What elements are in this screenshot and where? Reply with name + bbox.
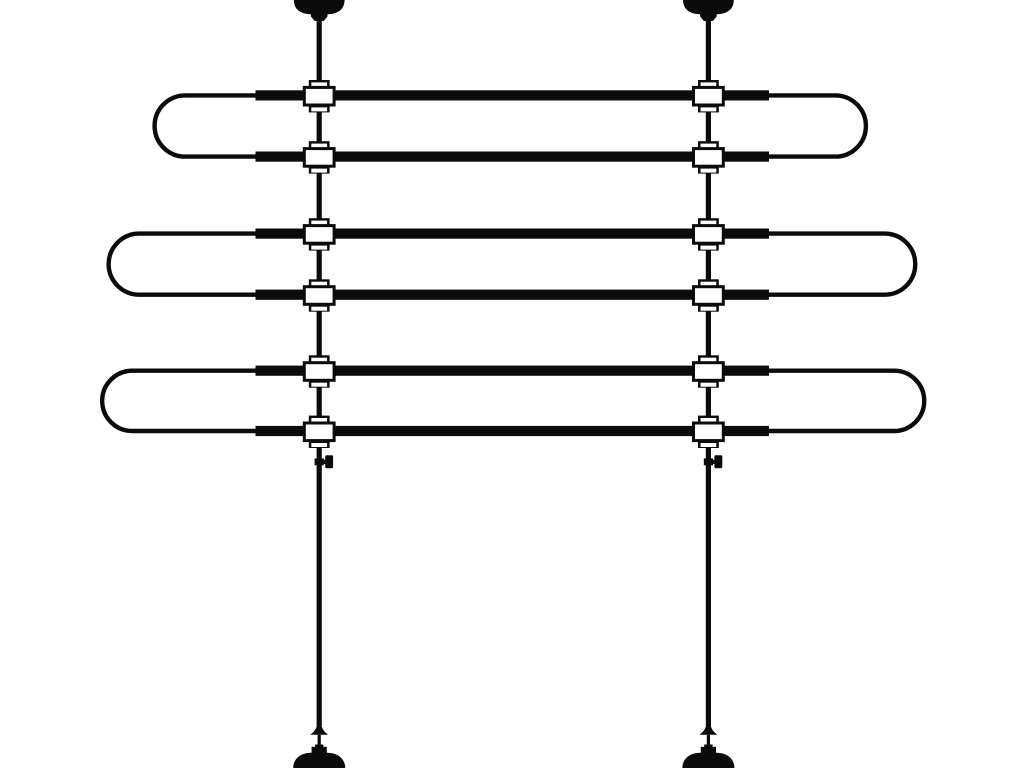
bar 4 outer tube (thick) <box>256 290 770 300</box>
right bottom cap <box>704 745 712 748</box>
loop 3 inner tube (stadium outline) <box>102 371 924 431</box>
right bottom ball <box>682 752 734 768</box>
left tension knob <box>315 455 334 468</box>
right pole <box>706 12 711 726</box>
clamp L5 (left pole, bar 5) <box>303 355 336 387</box>
loop 1 inner tube (stadium outline) <box>155 95 866 156</box>
left bottom cone <box>310 723 328 735</box>
bar 5 outer tube (thick) <box>256 366 770 376</box>
bar 2 outer tube (thick) <box>256 152 770 162</box>
right top ball <box>683 0 734 15</box>
clamp L2 (left pole, bar 2) <box>303 141 336 173</box>
clamp L6 (left pole, bar 6) <box>303 416 336 448</box>
left bottom ball <box>293 752 345 768</box>
left bottom stem <box>318 735 321 745</box>
clamp R2 (right pole, bar 2) <box>692 141 725 173</box>
clamp L4 (left pole, bar 4) <box>303 279 336 311</box>
left pole <box>317 12 322 726</box>
left bottom cap <box>315 745 323 748</box>
clamp R5 (right pole, bar 5) <box>692 355 725 387</box>
clamp R4 (right pole, bar 4) <box>692 279 725 311</box>
right bottom stem <box>707 735 710 745</box>
bar 6 outer tube (thick) <box>256 426 770 436</box>
right top neck <box>700 8 717 21</box>
bar 3 outer tube (thick) <box>256 229 770 239</box>
clamp L3 (left pole, bar 3) <box>303 218 336 250</box>
clamp R6 (right pole, bar 6) <box>692 416 725 448</box>
right bottom cone <box>699 723 717 735</box>
clamp L1 (left pole, bar 1) <box>303 80 336 112</box>
right tension knob <box>704 455 723 468</box>
loop 2 inner tube (stadium outline) <box>109 234 916 295</box>
bar 1 outer tube (thick) <box>256 90 770 100</box>
left top neck <box>311 8 328 21</box>
left top ball <box>294 0 345 15</box>
clamp R1 (right pole, bar 1) <box>692 80 725 112</box>
clamp R3 (right pole, bar 3) <box>692 218 725 250</box>
